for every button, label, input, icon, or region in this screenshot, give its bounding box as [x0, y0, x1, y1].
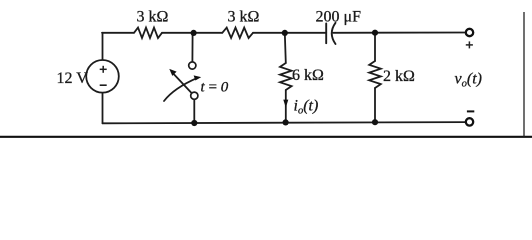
- svg-text:12 V: 12 V: [57, 70, 89, 87]
- resistor R4 2 kOhm zigzag: [369, 61, 381, 88]
- minus sign above bottom terminal: [467, 110, 474, 112]
- svg-text:3 kΩ: 3 kΩ: [137, 9, 169, 26]
- resistor R2 3 kOhm zigzag: [222, 28, 253, 38]
- switch lower contact circle: [191, 92, 198, 99]
- wire top-left vertical: [102, 33, 104, 60]
- svg-text:3 kΩ: 3 kΩ: [228, 9, 260, 26]
- svg-text:t = 0: t = 0: [201, 79, 229, 95]
- junction dot bottom 2k node: [372, 119, 378, 125]
- wire 2k branch bottom: [374, 88, 376, 123]
- wire R2 to capacitor: [253, 32, 326, 34]
- svg-text:200 μF: 200 μF: [316, 8, 362, 25]
- resistor R3 6 kOhm zigzag: [280, 63, 292, 90]
- output terminal bottom circle: [466, 118, 473, 125]
- switch arc arrowhead: [194, 75, 202, 80]
- junction dot bottom switch node: [191, 120, 197, 126]
- figure right border: [523, 12, 525, 137]
- switch wire lower circle to bottom wire: [193, 99, 195, 123]
- junction dot bottom 6k node: [283, 119, 289, 125]
- resistor R1 3 kOhm zigzag: [134, 28, 162, 38]
- switch blade arrowhead: [169, 69, 176, 76]
- voltage source minus sign: [100, 84, 107, 86]
- junction dot top switch node: [191, 30, 197, 36]
- switch upper contact circle: [189, 62, 196, 69]
- wire 6k branch bottom with current arrow: [285, 90, 287, 123]
- voltage source V1 circle: [86, 60, 119, 93]
- svg-text:2 kΩ: 2 kΩ: [383, 68, 415, 85]
- capacitor C1 right curved plate: [332, 23, 336, 44]
- plus sign below top terminal: [466, 41, 473, 48]
- wire 6k branch top: [285, 33, 286, 63]
- current arrow io(t) head: [283, 100, 288, 108]
- svg-text:io(t): io(t): [294, 98, 319, 117]
- figure bottom border: [0, 136, 532, 138]
- junction dot top 6k node: [282, 30, 288, 36]
- switch vertical wire from top node: [191, 33, 193, 62]
- output terminal top circle: [466, 29, 473, 36]
- voltage source plus sign: [100, 66, 107, 73]
- capacitor C1 left plate: [325, 24, 327, 44]
- wire between R1 and switch node: [162, 32, 222, 34]
- switch blade: [173, 73, 192, 93]
- switch motion arc: [164, 78, 198, 101]
- svg-text:vo(t): vo(t): [455, 70, 482, 89]
- svg-text:6 kΩ: 6 kΩ: [292, 67, 324, 84]
- wire bottom horizontal: [103, 122, 465, 123]
- wire 2k branch top: [374, 33, 376, 61]
- junction dot top 2k node: [372, 30, 378, 36]
- wire capacitor to right terminal: [333, 32, 465, 34]
- wire top horizontal left segment: [102, 32, 134, 34]
- wire source bottom vertical: [102, 94, 104, 124]
